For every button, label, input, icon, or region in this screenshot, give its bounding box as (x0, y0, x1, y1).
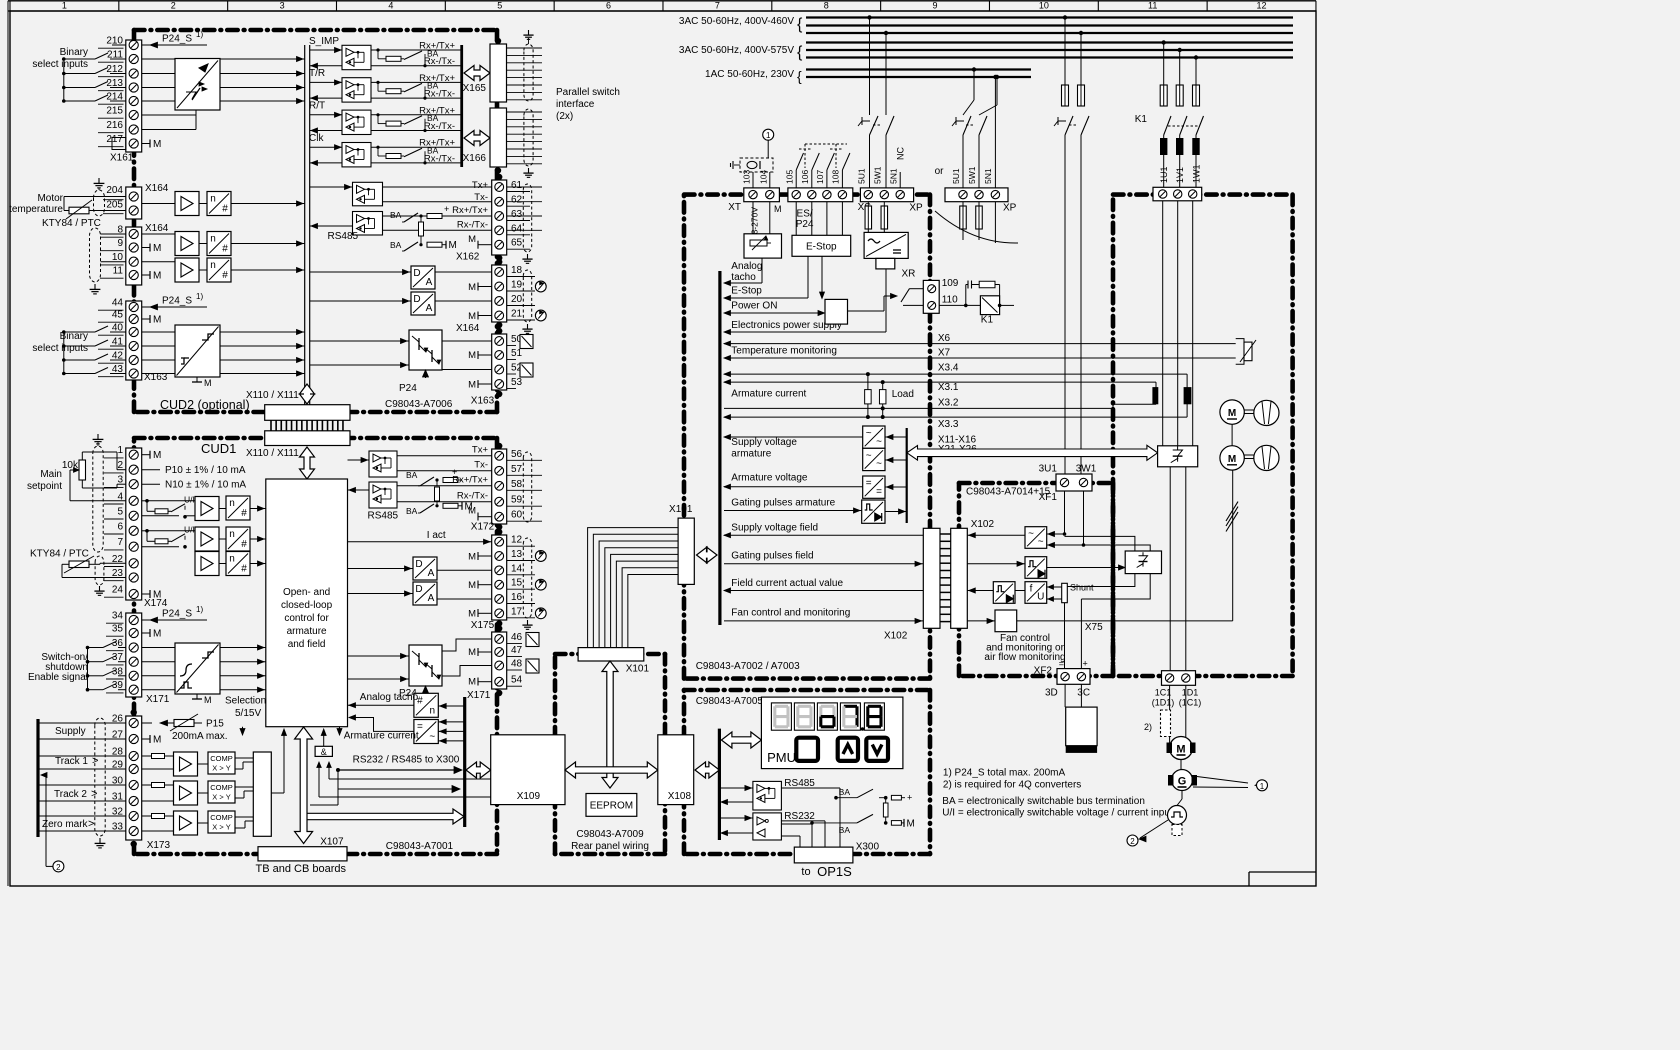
svg-text:3W1: 3W1 (1076, 464, 1097, 475)
armature sense collector line (906, 428, 908, 523)
svg-text:KTY84 / PTC: KTY84 / PTC (42, 218, 101, 229)
svg-text:65: 65 (511, 238, 523, 249)
comparator COMP zero (208, 811, 235, 833)
wires field bridge DC (1067, 574, 1135, 587)
svg-text:3D: 3D (1045, 688, 1058, 699)
shield X175 cable (523, 538, 531, 618)
wire motor temp to bus (142, 203, 175, 205)
transceiver RS485 PMU (753, 781, 782, 810)
multiplexer encoder (253, 752, 271, 836)
motor armature M (1170, 737, 1193, 760)
amplifier track1 (174, 752, 198, 776)
wire 204 205 (64, 196, 126, 198)
svg-text:M: M (204, 378, 212, 388)
svg-text:COMP: COMP (210, 754, 233, 763)
wire K1 right (1000, 304, 1014, 306)
label X171a P24_S (142, 619, 207, 621)
CT core W phase (1184, 387, 1192, 404)
svg-text:5W1: 5W1 (873, 166, 883, 184)
bus line A7002 (718, 271, 721, 625)
PMU display panel (761, 697, 903, 769)
label Armature current (339, 727, 341, 729)
svg-text:X166: X166 (463, 153, 487, 164)
svg-text:35: 35 (112, 624, 124, 635)
board outline C98043-A7005 PMU (dash-dot) (684, 688, 930, 693)
power-on logic box (825, 299, 848, 324)
svg-text:RS232: RS232 (784, 811, 815, 822)
svg-text:I act: I act (427, 530, 446, 541)
svg-text:16: 16 (511, 592, 523, 603)
input bus switch-on (87, 648, 89, 690)
svg-text:BA = electronically switchable: BA = electronically switchable bus termi… (942, 796, 1145, 807)
svg-text:12: 12 (1257, 1, 1267, 11)
arrow X110/X111 to CUD1 (300, 447, 315, 479)
shield motor temp cable (94, 190, 105, 216)
svg-text:Supply voltage: Supply voltage (731, 437, 797, 448)
svg-text:to: to (801, 866, 810, 878)
wire 1D1 to motor (1185, 685, 1187, 742)
terminal block X162 (492, 180, 507, 255)
svg-text:2): 2) (1144, 722, 1152, 732)
svg-text:Rx-/Tx-: Rx-/Tx- (424, 121, 455, 132)
tap 1AC supply A (972, 67, 976, 71)
EEPROM box (586, 794, 637, 817)
svg-text:28: 28 (112, 747, 124, 758)
svg-text:1U1: 1U1 (1159, 166, 1169, 183)
svg-text:1C1: 1C1 (1155, 688, 1172, 698)
svg-text:P24_S: P24_S (162, 34, 192, 45)
shield analog inputs 8-11 (90, 228, 101, 282)
amplifier track2 (174, 781, 198, 805)
fuse field supply B (1078, 85, 1085, 106)
svg-text:30: 30 (112, 776, 124, 787)
svg-text:n: n (210, 234, 216, 245)
switch contact binary input row (64, 373, 95, 375)
switch contact enable row (88, 689, 104, 691)
tap electronics supply phase B (884, 31, 888, 35)
U/I input switch 6/7 (145, 529, 149, 533)
interface arrow X166 (464, 131, 490, 146)
wires Clk (310, 146, 342, 148)
svg-text:Main: Main (40, 469, 62, 480)
svg-text:40: 40 (112, 323, 124, 334)
svg-text:D: D (413, 268, 420, 279)
svg-text:A: A (428, 568, 435, 579)
svg-text:34: 34 (112, 611, 124, 622)
svg-text:COMP: COMP (210, 783, 233, 792)
svg-text:59: 59 (511, 495, 523, 506)
svg-text:P24_S: P24_S (162, 609, 192, 620)
svg-text:57: 57 (511, 464, 523, 475)
wires armature current feedback (349, 718, 414, 732)
svg-text:CUD2 (optional): CUD2 (optional) (160, 398, 250, 412)
svg-text:~: ~ (429, 732, 435, 743)
svg-text:X108: X108 (668, 791, 692, 802)
meter at 19 (535, 281, 546, 292)
svg-text:C98043-A7005: C98043-A7005 (696, 696, 764, 707)
svg-text:44: 44 (112, 298, 124, 309)
svg-text:P10 ± 1% / 10 mA: P10 ± 1% / 10 mA (165, 465, 246, 476)
converter n/# CUD1 b (226, 527, 250, 551)
svg-text:=: = (876, 486, 882, 497)
wires field current (967, 590, 993, 592)
amplifier motor temperature (175, 192, 199, 216)
svg-text:M: M (468, 506, 476, 517)
svg-text:X164: X164 (145, 223, 169, 234)
svg-text:5W1: 5W1 (967, 166, 977, 184)
svg-text:&: & (321, 747, 327, 757)
meter at 13 (535, 551, 546, 562)
svg-text:X171: X171 (146, 694, 170, 705)
svg-text:~: ~ (866, 450, 872, 461)
svg-text:U: U (1037, 591, 1044, 602)
svg-text:103: 103 (742, 170, 752, 184)
svg-text:XP: XP (1003, 203, 1017, 214)
svg-text:M: M (1176, 744, 1185, 756)
wire 24 M (142, 593, 150, 595)
fan control box (995, 610, 1017, 632)
svg-text:X7: X7 (938, 348, 951, 359)
svg-text:Shunt: Shunt (1070, 583, 1094, 593)
shield X165 cable (524, 44, 533, 101)
svg-text:205: 205 (106, 200, 123, 211)
svg-text:26: 26 (112, 714, 124, 725)
svg-text:S_IMP: S_IMP (309, 36, 339, 47)
svg-text:1AC 50-60Hz, 230V: 1AC 50-60Hz, 230V (705, 69, 794, 80)
svg-text:BA: BA (406, 470, 418, 480)
svg-text:5U1: 5U1 (857, 168, 867, 184)
svg-text:33: 33 (112, 822, 124, 833)
svg-text:M: M (153, 735, 161, 746)
svg-text:M: M (1228, 454, 1236, 465)
terminal block X171 (46-54) (492, 632, 507, 689)
switch electronics supply (870, 116, 879, 135)
terminal block X163 (50-53) (492, 334, 507, 390)
PMU button raise (838, 738, 858, 761)
svg-text:204: 204 (106, 185, 123, 196)
svg-text:3: 3 (117, 475, 123, 486)
wire between fans (1231, 424, 1233, 445)
svg-text:Analog tacho: Analog tacho (360, 692, 419, 703)
net N10 (142, 483, 160, 485)
signal X7 temperature monitoring (724, 357, 1236, 359)
svg-text:(2x): (2x) (556, 111, 573, 122)
svg-text:14: 14 (511, 563, 523, 574)
connector XT (744, 188, 780, 202)
svg-text:U/I: U/I (184, 524, 195, 534)
svg-text:2: 2 (56, 863, 61, 872)
circled terminal 2 marker (53, 861, 64, 872)
svg-text:Supply voltage field: Supply voltage field (731, 523, 818, 534)
fuse electronics B (883, 202, 885, 206)
svg-text:+: + (444, 204, 449, 214)
motor field winding (1066, 707, 1097, 746)
signal X6 temperature (724, 343, 1236, 345)
svg-text:M: M (204, 695, 212, 705)
svg-text:X > Y: X > Y (212, 823, 230, 832)
svg-text:air flow monitoring: air flow monitoring (984, 652, 1065, 663)
svg-text:39: 39 (112, 680, 124, 691)
svg-text:+: + (907, 793, 912, 803)
wires AND inputs (317, 762, 322, 768)
connector XR (923, 280, 939, 313)
converter n/# motor temperature (207, 192, 231, 216)
svg-text:BA: BA (406, 506, 418, 516)
switch contact enable row (88, 647, 104, 649)
svg-text:43: 43 (112, 364, 124, 375)
switch contact binary input 212 (64, 73, 95, 75)
net P24_S arrow at 44 (142, 306, 207, 308)
P24 arrow CUD1 driver (423, 686, 429, 693)
svg-text:M: M (449, 240, 457, 251)
svg-text:KTY84 / PTC: KTY84 / PTC (30, 549, 89, 560)
wires X102 to field sense (967, 534, 1025, 536)
PMU button P (796, 738, 818, 761)
svg-text:36: 36 (112, 638, 124, 649)
analog tacho plug (dashed) (740, 158, 773, 172)
wires analog to bus (142, 233, 175, 235)
svg-text:X163: X163 (471, 396, 495, 407)
svg-text:64: 64 (511, 223, 523, 234)
svg-text:Tx+: Tx+ (472, 180, 489, 191)
switch contact binary input row (64, 331, 95, 333)
svg-text:n: n (229, 498, 235, 509)
svg-text:3AC 50-60Hz, 400V-575V: 3AC 50-60Hz, 400V-575V (679, 45, 794, 56)
svg-text:56: 56 (511, 449, 523, 460)
wire terminal 215 (142, 114, 196, 116)
svg-text:M: M (153, 139, 161, 150)
wire 110 to K1 coil (939, 304, 980, 306)
svg-text:3U1: 3U1 (1039, 464, 1058, 475)
relay load at 50 (520, 335, 533, 349)
svg-text:N10 ± 1% / 10 mA: N10 ± 1% / 10 mA (165, 480, 246, 491)
svg-text:Zero mark: Zero mark (42, 819, 89, 830)
svg-text:A: A (426, 303, 433, 314)
relay load at 48 (526, 659, 539, 673)
wire electronics supply (885, 269, 887, 332)
svg-text:9: 9 (117, 238, 123, 249)
svg-text:Binary: Binary (60, 47, 88, 58)
svg-text:P24: P24 (399, 383, 417, 394)
svg-text:>: > (91, 788, 97, 800)
shunt resistor (1047, 586, 1062, 588)
ground X165 (528, 30, 530, 35)
svg-text:5N1: 5N1 (983, 168, 993, 184)
svg-text:n: n (229, 529, 235, 540)
U/I input switch 4/5 (145, 499, 149, 503)
terminal block X164 (8-11) (126, 227, 142, 285)
svg-text:20: 20 (511, 294, 523, 305)
field gating to bridge (1047, 567, 1119, 569)
svg-text:T/R: T/R (309, 68, 325, 79)
commutation reactors (1163, 135, 1165, 138)
svg-text:41: 41 (112, 337, 124, 348)
svg-text:Open- and: Open- and (283, 587, 330, 598)
svg-text:#: # (241, 508, 247, 519)
svg-text:M: M (468, 609, 476, 620)
svg-text:1: 1 (117, 445, 123, 456)
ground shield encoder (99, 838, 101, 843)
svg-text:M: M (468, 647, 476, 658)
shield X172 cable (523, 452, 531, 522)
wires RS232 PMU (719, 817, 753, 819)
signal X3.1 (724, 381, 1156, 383)
svg-text:RS485: RS485 (368, 511, 399, 522)
svg-text:Tx-: Tx- (474, 460, 488, 471)
svg-text:tacho: tacho (731, 272, 756, 283)
svg-text:47: 47 (511, 645, 523, 656)
svg-text:Rx-/Tx-: Rx-/Tx- (424, 56, 455, 67)
bus termination BA S_IMP (386, 56, 401, 61)
wire fan supply up (1232, 470, 1234, 621)
wires bridge output (1169, 467, 1171, 671)
wires amps to control CUD1 (219, 508, 226, 510)
backplane bus line CUD1 (463, 697, 466, 827)
svg-text:X107: X107 (320, 837, 344, 848)
bus 3AC 400V-460V (806, 16, 1293, 18)
field output 3D (1064, 603, 1066, 669)
field supply sense converter (1025, 527, 1047, 549)
terminal block X171 (34-39) (126, 613, 142, 697)
svg-text:109: 109 (942, 278, 959, 289)
svg-text:46: 46 (511, 632, 523, 643)
svg-text:216: 216 (106, 120, 123, 131)
svg-text:M: M (468, 552, 476, 563)
ground shield analog inputs (94, 284, 96, 289)
svg-text:{: { (797, 16, 803, 33)
connector XF1 (1056, 474, 1092, 491)
converter n/# CUD1 a (226, 496, 250, 520)
board outline CUD2 (dash-dot) (134, 28, 497, 33)
svg-text:D: D (415, 559, 422, 570)
svg-text:M: M (153, 450, 161, 461)
meter at 21 (535, 310, 546, 321)
svg-text:C98043-A7001: C98043-A7001 (386, 841, 454, 852)
wires fan control (967, 620, 995, 622)
svg-text:X162: X162 (456, 252, 480, 263)
wires PMU to X300 (781, 787, 840, 789)
shield X162 cable (523, 184, 531, 252)
svg-text:13: 13 (511, 549, 523, 560)
threshold switch block CUD1 (175, 643, 220, 694)
svg-text:Gating pulses field: Gating pulses field (731, 550, 813, 561)
svg-text:X110 / X111: X110 / X111 (246, 448, 299, 459)
svg-text:f: f (1030, 584, 1033, 595)
tap field supply phase A (1063, 15, 1067, 19)
wire selection 5/15V (242, 727, 244, 729)
wires X165 to plug (507, 47, 543, 49)
svg-text:Analog: Analog (731, 261, 762, 272)
wire terminal 217 M (142, 143, 150, 145)
wire field supply down to XF1 (1064, 135, 1066, 474)
terminal block X174 (126, 448, 142, 600)
svg-text:M: M (1228, 408, 1236, 419)
terminal block X173 (126, 716, 142, 840)
svg-text:~: ~ (866, 428, 872, 439)
svg-text:Enable signal: Enable signal (28, 672, 88, 683)
svg-text:48: 48 (511, 659, 523, 670)
emergency stop dashed contacts (795, 170, 797, 188)
amplifier analog input 1 (175, 232, 199, 256)
svg-text:108: 108 (831, 170, 841, 184)
svg-text:P24: P24 (796, 219, 814, 230)
wires G to terminal 1 (1193, 776, 1248, 783)
CT loop X3.1/X3.2 (1155, 382, 1157, 404)
DAC output 2 CUD2 (411, 292, 435, 315)
svg-text:Tx+: Tx+ (472, 445, 489, 456)
svg-text:CUD1: CUD1 (201, 441, 236, 456)
tap electronics supply phase A (867, 15, 871, 19)
XR switch blade (901, 289, 910, 303)
svg-text:n: n (229, 554, 235, 565)
svg-text:1V1: 1V1 (1175, 167, 1185, 183)
hollow arrow to X109 (307, 809, 464, 824)
svg-text:2: 2 (117, 460, 123, 471)
svg-text:Rx-/Tx-: Rx-/Tx- (424, 153, 455, 164)
temperature sensor bracket (1236, 339, 1244, 343)
svg-text:(1D1): (1D1) (1152, 698, 1175, 708)
svg-text:>: > (88, 818, 94, 830)
terminal block X164 (18-21) (492, 265, 507, 322)
interface arrow X165 (464, 66, 490, 81)
svg-text:62: 62 (511, 195, 523, 206)
ruler band (8, 0, 1316, 2)
svg-text:X101: X101 (626, 664, 650, 675)
connector XP right (945, 188, 1008, 202)
shield main setpoint cable (93, 446, 103, 552)
svg-text:58: 58 (511, 479, 523, 490)
svg-text:~: ~ (1038, 536, 1044, 547)
svg-text:BA: BA (390, 210, 402, 220)
switch field supply (1065, 116, 1073, 135)
wire 27 M (142, 738, 150, 740)
svg-text:M: M (153, 315, 161, 326)
svg-text:2: 2 (1130, 837, 1135, 846)
svg-text:5N1: 5N1 (889, 168, 899, 184)
wire 5N1 right (994, 77, 996, 188)
svg-text:4: 4 (388, 1, 393, 11)
transceiver RS232 PMU (753, 813, 782, 840)
circled 1 analog tacho (763, 129, 774, 140)
fan blades 1 (1254, 400, 1279, 425)
wires threshold to bus (220, 331, 305, 333)
power supply box (864, 232, 908, 258)
connector X101 vertical (678, 518, 694, 584)
ground X166 shield (528, 168, 530, 173)
svg-text:~: ~ (876, 459, 882, 470)
terminal block X163 (CUD2 left) (126, 301, 142, 380)
svg-text:Power ON: Power ON (731, 301, 777, 312)
DAC output 1 CUD1 (413, 557, 437, 580)
tap field supply phase B (1079, 31, 1083, 35)
svg-text:1: 1 (1260, 782, 1265, 791)
svg-text:4: 4 (117, 491, 123, 502)
svg-text:X171: X171 (467, 690, 491, 701)
wires field bridge AC (1065, 536, 1135, 551)
svg-text:Parallel switch: Parallel switch (556, 87, 620, 98)
connector comb X110/X111 (270, 420, 272, 431)
DAC output 1 CUD2 (411, 266, 435, 289)
wires RS232/RS485 to X109 (336, 768, 340, 772)
terminal block 1C1/1D1 (1162, 671, 1196, 686)
fan motor M2 (1220, 446, 1244, 470)
svg-text:C98043-A7009: C98043-A7009 (576, 829, 644, 840)
svg-text:1): 1) (196, 292, 203, 301)
svg-text:#: # (241, 564, 247, 575)
svg-text:Tx-: Tx- (474, 192, 488, 203)
svg-text:Supply: Supply (55, 726, 86, 737)
svg-text:X > Y: X > Y (212, 764, 230, 773)
